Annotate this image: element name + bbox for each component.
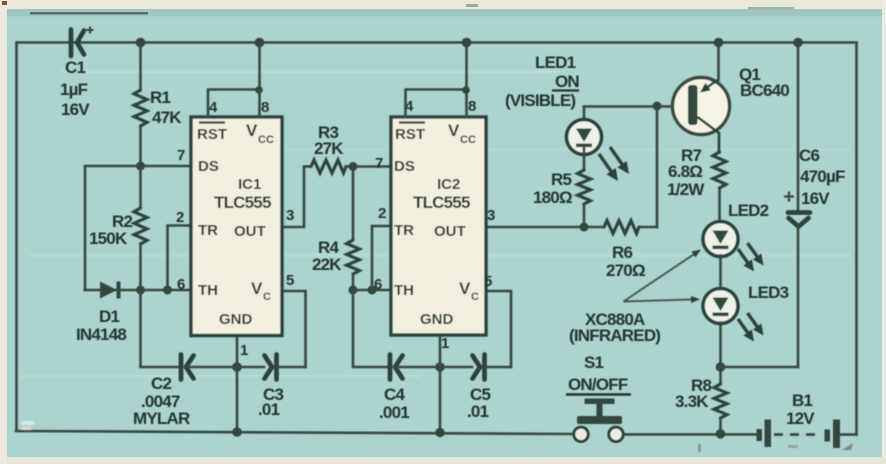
wire bottom rail switch to battery — [624, 433, 757, 436]
svg-text:LED3: LED3 — [748, 283, 789, 302]
node R3/R4 junction — [349, 162, 358, 171]
node IC2 pin1 on bottom rail — [435, 428, 445, 438]
IC2 TLC555 box — [391, 117, 486, 335]
svg-text:IN4148: IN4148 — [76, 325, 126, 344]
svg-text:ON: ON — [555, 72, 579, 91]
svg-text:6.8Ω: 6.8Ω — [668, 162, 702, 181]
svg-text:1/2W: 1/2W — [667, 180, 705, 199]
svg-text:IC2: IC2 — [437, 176, 460, 193]
arrows to infrared LEDs — [624, 250, 702, 304]
svg-text:CC: CC — [460, 134, 476, 146]
wire IC1 pin8 from rail — [258, 43, 261, 118]
svg-text:LED1: LED1 — [535, 53, 576, 72]
svg-text:270Ω: 270Ω — [606, 261, 645, 280]
capacitor C3 — [237, 355, 306, 420]
svg-text:V: V — [448, 121, 460, 140]
wire TR branch IC1 pin 2 — [168, 226, 192, 291]
resistor R2 — [89, 166, 147, 290]
svg-text:(VISIBLE): (VISIBLE) — [505, 91, 575, 110]
IC1 pin number labels — [176, 99, 294, 359]
node TR junction IC1 — [163, 286, 172, 295]
node R8 bottom rail junction — [716, 429, 726, 439]
node TH junction IC1 — [136, 286, 145, 295]
switch S1 ON/OFF — [566, 353, 631, 441]
svg-text:5: 5 — [286, 272, 294, 289]
svg-text:C4: C4 — [384, 385, 405, 404]
svg-text:3.3K: 3.3K — [675, 392, 709, 411]
wire top rail +V — [17, 41, 857, 44]
svg-text:12V: 12V — [786, 409, 815, 428]
svg-text:C: C — [471, 291, 479, 303]
svg-text:TH: TH — [198, 282, 218, 299]
LED2 emission arrows — [738, 243, 764, 272]
resistor R6 — [604, 221, 657, 281]
wire C2 left column — [141, 290, 180, 367]
scan smudge near battery — [842, 443, 853, 450]
wire C4 left column — [353, 290, 388, 367]
svg-text:V: V — [246, 121, 258, 140]
svg-text:OUT: OUT — [434, 223, 466, 240]
svg-text:TR: TR — [198, 222, 218, 239]
node Q1 emitter rail junction — [714, 38, 724, 48]
capacitor C2 — [133, 355, 237, 429]
node R8 top / C6 junction — [716, 362, 726, 372]
svg-text:C2: C2 — [151, 374, 171, 393]
diode D1 — [76, 282, 141, 345]
resistor R3 — [304, 123, 353, 173]
svg-text:2: 2 — [378, 205, 386, 222]
LED LED2 — [703, 201, 769, 257]
scan marks bottom edge — [698, 444, 701, 452]
capacitor C4 — [379, 355, 440, 423]
svg-text:B1: B1 — [792, 391, 812, 410]
node DS junction pin7 IC1 — [136, 162, 145, 171]
battery B1 12V — [757, 391, 841, 448]
node R5 bottom junction — [580, 223, 589, 232]
svg-text:6: 6 — [374, 276, 382, 293]
svg-text:8: 8 — [468, 98, 476, 115]
svg-text:22K: 22K — [312, 255, 342, 274]
svg-text:470µF: 470µF — [800, 167, 845, 186]
wire IC2 pin 3 OUT to R6 — [487, 226, 604, 229]
capacitor C6 — [784, 43, 845, 368]
wire C5 loop to IC2 pin 5 — [487, 291, 511, 367]
label XC880A (INFRARED) — [569, 310, 660, 345]
svg-text:.001: .001 — [379, 403, 409, 422]
svg-text:.01: .01 — [467, 402, 489, 421]
scan glitch bottom left — [22, 421, 34, 430]
wire TH stub to IC1 pin 6 — [141, 289, 192, 292]
svg-text:V: V — [251, 279, 263, 298]
wire C3 loop to IC1 pin 5 — [282, 291, 306, 367]
svg-text:GND: GND — [219, 311, 253, 328]
svg-text:47K: 47K — [152, 108, 182, 127]
svg-text:3: 3 — [286, 207, 294, 224]
svg-text:1µF: 1µF — [60, 80, 88, 99]
wire battery to right rail — [840, 433, 857, 436]
wire IC2 pin8 from rail — [465, 43, 468, 118]
wire right rail — [855, 43, 858, 435]
svg-text:R1: R1 — [150, 88, 170, 107]
svg-text:R5: R5 — [551, 170, 571, 189]
svg-text:.01: .01 — [258, 400, 280, 419]
svg-text:7: 7 — [375, 155, 383, 172]
svg-text:TH: TH — [394, 282, 414, 299]
svg-text:R6: R6 — [612, 243, 632, 262]
resistor R1 — [134, 43, 182, 167]
svg-text:16V: 16V — [801, 189, 830, 208]
svg-text:C6: C6 — [799, 146, 819, 165]
wire R6 to base node — [656, 106, 659, 227]
svg-text:TLC555: TLC555 — [214, 193, 271, 212]
resistor R4 — [312, 167, 360, 291]
node pin1 on bottom rail — [232, 427, 242, 437]
node base junction — [653, 102, 662, 111]
svg-text:180Ω: 180Ω — [533, 188, 572, 207]
svg-text:S1: S1 — [584, 353, 604, 372]
transistor Q1 BC640 — [673, 43, 790, 153]
svg-text:OUT: OUT — [234, 223, 266, 240]
svg-text:4: 4 — [209, 99, 218, 116]
wire C6 horizontal link — [721, 366, 799, 369]
wire left rail — [15, 43, 18, 432]
svg-text:C: C — [263, 291, 271, 303]
svg-text:6: 6 — [177, 276, 185, 293]
svg-text:RST: RST — [395, 126, 425, 143]
wire DS stub to IC1 pin 7 — [141, 165, 192, 168]
node C6 rail junction — [793, 38, 803, 48]
LED3 emission arrows — [738, 313, 764, 342]
IC1 TLC555 box — [191, 117, 282, 336]
capacitor C1 — [60, 27, 94, 120]
node bracket junction IC2 — [462, 86, 470, 94]
node IC1 pin8 rail junction — [255, 38, 265, 48]
svg-text:(INFRARED): (INFRARED) — [569, 326, 660, 345]
svg-text:3: 3 — [487, 207, 495, 224]
svg-text:D1: D1 — [99, 307, 119, 326]
svg-text:IC1: IC1 — [238, 176, 261, 193]
svg-text:TLC555: TLC555 — [413, 193, 470, 212]
wire IC2 pin 1 — [439, 335, 442, 433]
capacitor C5 — [440, 355, 511, 422]
svg-text:1: 1 — [441, 335, 449, 352]
IC2 pin number labels — [374, 98, 495, 352]
svg-text:1: 1 — [240, 342, 248, 359]
wire TH stub to IC2 pin 6 — [353, 289, 391, 292]
wire bottom rail left of switch — [16, 431, 574, 434]
svg-text:RST: RST — [197, 126, 227, 143]
svg-text:8: 8 — [261, 99, 269, 116]
node IC1 pin1 ground junction — [232, 362, 242, 372]
node bracket junction IC1 — [255, 86, 263, 94]
resistor R5 — [533, 153, 591, 227]
svg-text:DS: DS — [198, 158, 219, 175]
wire to IC2 pin 7 — [353, 165, 391, 168]
svg-text:CC: CC — [258, 134, 274, 146]
svg-text:27K: 27K — [314, 139, 344, 158]
svg-text:TR: TR — [394, 222, 414, 239]
resistor R8 — [675, 367, 727, 434]
LED LED3 — [703, 283, 789, 324]
svg-text:MYLAR: MYLAR — [133, 409, 190, 428]
svg-text:LED2: LED2 — [728, 201, 769, 220]
resistor R7 — [667, 146, 726, 223]
svg-text:ON/OFF: ON/OFF — [568, 375, 628, 394]
svg-text:7: 7 — [177, 147, 185, 164]
node TR junction IC2 — [368, 286, 377, 295]
node IC2 pin1 ground junction — [435, 362, 445, 372]
svg-text:2: 2 — [176, 209, 184, 226]
wire LED3 to R8 node — [719, 323, 722, 368]
wire IC1 pin 1 — [236, 335, 239, 432]
node IC2 pin8 rail junction — [462, 38, 472, 48]
node TH junction IC2 — [349, 286, 358, 295]
svg-text:150K: 150K — [89, 229, 128, 248]
wire LED2 to LED3 — [719, 256, 722, 290]
node junction top of R1 — [136, 38, 146, 48]
svg-text:DS: DS — [394, 158, 415, 175]
wire TR branch IC2 pin 2 — [372, 226, 391, 290]
svg-text:GND: GND — [420, 311, 454, 328]
LED LED1 — [505, 53, 602, 155]
wire D1 branch left — [85, 166, 141, 290]
svg-text:BC640: BC640 — [740, 81, 789, 100]
svg-text:C1: C1 — [65, 58, 85, 77]
wire IC2 pin4 bracket — [406, 90, 467, 118]
wire IC1 pin 3 out to R3 — [282, 167, 304, 228]
wire IC1 pin4 bracket — [208, 90, 260, 118]
wire base wire — [584, 105, 689, 108]
svg-text:16V: 16V — [61, 100, 90, 119]
LED1 emission arrows — [599, 147, 629, 181]
svg-text:V: V — [459, 279, 471, 298]
svg-text:5: 5 — [484, 273, 492, 290]
